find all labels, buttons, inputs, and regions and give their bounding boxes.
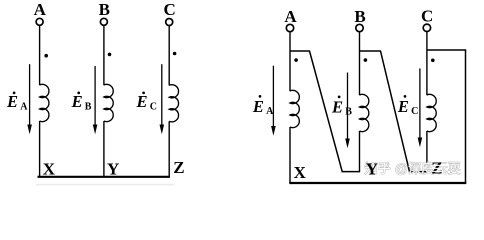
svg-text:B: B: [99, 0, 110, 19]
polarity dot B (right): [364, 58, 368, 62]
emf arrow E_B (right): [345, 73, 350, 149]
value label E_B (right): [331, 96, 352, 118]
wire C terminal to coil (right): [426, 32, 428, 96]
wire A terminal to coil (right): [289, 32, 291, 91]
svg-text:A: A: [266, 106, 274, 117]
terminal B: [100, 18, 107, 25]
svg-text:E: E: [6, 92, 18, 111]
svg-text:C: C: [150, 101, 157, 112]
wire C coil to node Z: [168, 121, 170, 177]
emf arrow E_A (right): [271, 66, 276, 136]
svg-text:Y: Y: [107, 159, 119, 178]
wire B coil to zigzag bottom: [359, 131, 361, 172]
svg-text:X: X: [294, 163, 307, 182]
polarity dot C: [173, 52, 177, 56]
wire B terminal to coil: [103, 25, 105, 85]
wire: B top junction horizontal: [360, 50, 382, 52]
wire: A top junction horizontal: [290, 50, 310, 52]
value label E_A (right): [252, 95, 274, 117]
winding B coil (right): [360, 94, 369, 131]
winding A coil: [40, 84, 49, 121]
value label E_B: [71, 92, 92, 113]
svg-text:知乎 @深度玩耍: 知乎 @深度玩耍: [365, 161, 461, 176]
polarity dot C (right): [431, 59, 435, 63]
wire A coil to node X: [39, 121, 41, 177]
svg-text:E: E: [331, 97, 343, 116]
emf arrow E_C (right): [418, 68, 423, 147]
svg-text:C: C: [411, 106, 418, 117]
wire: zigzag bottom horizontal (C bottom): [409, 171, 427, 173]
svg-text:E: E: [252, 97, 264, 116]
wire: diagonal from B top to C bottom: [381, 51, 410, 172]
terminal C: [166, 19, 173, 26]
svg-text:Z: Z: [173, 158, 184, 177]
svg-text:E: E: [71, 92, 83, 111]
polarity dot A: [44, 54, 48, 58]
value label E_C (right): [397, 95, 418, 117]
winding C coil: [169, 85, 178, 122]
faint scan streak under left bus: [36, 184, 174, 186]
polarity dot B: [108, 53, 112, 57]
svg-text:A: A: [20, 101, 28, 112]
wire A coil to node X (right): [289, 127, 291, 183]
terminal A (right): [286, 24, 293, 31]
svg-text:X: X: [43, 159, 56, 178]
winding C coil (right): [427, 94, 436, 131]
svg-text:C: C: [421, 6, 433, 25]
svg-text:B: B: [345, 106, 352, 117]
svg-text:E: E: [136, 92, 148, 111]
wire: zigzag bottom horizontal (B bottom): [342, 171, 360, 173]
winding A coil (right): [290, 90, 299, 127]
value label E_C: [136, 92, 157, 113]
svg-text:B: B: [85, 101, 92, 112]
bottom bus wire X-Y-Z: [38, 176, 171, 178]
wire: right edge vertical: [465, 50, 467, 183]
wire: C top junction horizontal to right edge: [427, 49, 466, 51]
wire: diagonal from A top to B bottom: [310, 51, 343, 172]
bottom bus wire (right, node X to right edge): [289, 182, 466, 184]
emf arrow E_A: [27, 64, 32, 134]
polarity dot A (right): [294, 58, 298, 62]
svg-text:C: C: [163, 0, 175, 19]
svg-text:B: B: [354, 7, 365, 26]
terminal B (right): [356, 24, 363, 31]
winding B coil: [104, 84, 113, 121]
terminal C (right): [423, 24, 430, 31]
terminal A: [36, 18, 43, 25]
emf arrow E_B: [93, 66, 98, 134]
wire C terminal to coil: [168, 26, 170, 86]
wire B coil to node Y: [103, 121, 105, 177]
wire A terminal to coil: [39, 25, 41, 85]
value label E_A: [6, 92, 28, 113]
wire C coil to zigzag bottom: [426, 131, 428, 172]
watermark stroke crossings over node Z: [431, 165, 444, 171]
svg-text:E: E: [397, 97, 409, 116]
emf arrow E_C: [160, 64, 165, 134]
svg-text:Y: Y: [366, 160, 378, 179]
svg-text:A: A: [34, 0, 47, 19]
svg-text:A: A: [284, 7, 297, 26]
wire B terminal to coil (right): [359, 32, 361, 95]
